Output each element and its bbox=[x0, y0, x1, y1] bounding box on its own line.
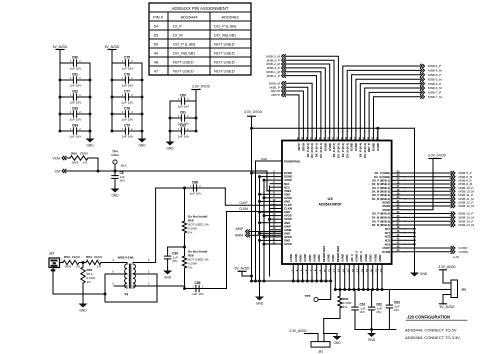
svg-text:RESERVED1: RESERVED1 bbox=[322, 245, 326, 262]
svg-text:.1uF 16V: .1uF 16V bbox=[121, 67, 134, 71]
U3 right pin stubs bbox=[392, 172, 405, 174]
svg-text:3.3V_DVDD: 3.3V_DVDD bbox=[192, 85, 211, 89]
svg-text:DO_M(LSB): DO_M(LSB) bbox=[173, 50, 195, 55]
svg-text:DRYP: DRYP bbox=[297, 143, 301, 151]
svg-text:AINM: AINM bbox=[235, 234, 243, 238]
svg-text:OVRM: OVRM bbox=[459, 250, 469, 254]
svg-text:DX_M (MSB-2): DX_M (MSB-2) bbox=[372, 189, 390, 193]
capacitor C82 bbox=[72, 94, 74, 100]
svg-text:DVDD: DVDD bbox=[354, 143, 358, 151]
svg-text:DRYP: DRYP bbox=[271, 93, 280, 97]
capacitor C86 bbox=[192, 185, 194, 191]
svg-text:0603: 0603 bbox=[72, 161, 79, 165]
svg-text:ADS5444: CONNECT TO 5V: ADS5444: CONNECT TO 5V bbox=[405, 328, 457, 333]
wire rail down right side bbox=[414, 128, 416, 270]
capacitor C34 bbox=[168, 246, 185, 248]
resistor R56 bbox=[82, 263, 84, 268]
jumper J20 bbox=[451, 280, 458, 298]
jumper J21 bbox=[311, 342, 330, 348]
svg-text:C75: C75 bbox=[124, 55, 130, 59]
resistor R59 Do Not Install bbox=[182, 256, 186, 268]
capacitor C34 bbox=[164, 255, 170, 257]
wire to T4 pin 4 bbox=[101, 262, 114, 264]
svg-text:DX_P (MSB-2): DX_P (MSB-2) bbox=[372, 186, 390, 190]
svg-text:ADS5444: ADS5444 bbox=[180, 15, 198, 20]
svg-text:1%: 1% bbox=[83, 161, 88, 165]
wire R60 bottom bbox=[324, 308, 340, 334]
svg-text:GND: GND bbox=[164, 276, 172, 280]
svg-text:.1uF 16V: .1uF 16V bbox=[189, 192, 202, 196]
svg-text:NC8: NC8 bbox=[385, 238, 391, 242]
svg-text:NOT USED: NOT USED bbox=[173, 68, 194, 73]
svg-text:5V_AVDD: 5V_AVDD bbox=[440, 305, 455, 309]
svg-text:1%: 1% bbox=[76, 265, 81, 269]
svg-text:.1uF 16V: .1uF 16V bbox=[69, 84, 82, 88]
resistor R52 ZERO bbox=[63, 260, 79, 264]
right data bus group 2 bbox=[405, 213, 451, 215]
resistor R06 ZERO bbox=[70, 156, 88, 160]
svg-text:DX_P (M-4): DX_P (M-4) bbox=[358, 143, 362, 157]
svg-text:DX_M (M-1): DX_M (M-1) bbox=[319, 143, 323, 158]
svg-text:DRY_P: DRY_P bbox=[367, 143, 371, 152]
capacitor C77 bbox=[124, 94, 126, 100]
bus vertical V1 bbox=[251, 116, 253, 281]
ground bbox=[259, 294, 261, 297]
svg-text:MSB-5_M: MSB-5_M bbox=[428, 77, 442, 81]
wire CM to VREF bbox=[66, 170, 267, 172]
svg-text:3.3V_DVDD: 3.3V_DVDD bbox=[428, 154, 447, 158]
svg-text:AVDD: AVDD bbox=[308, 255, 312, 262]
svg-text:.1uF 16V: .1uF 16V bbox=[69, 135, 82, 139]
gnd near J21 bbox=[330, 333, 337, 335]
svg-text:ju-1B: ju-1B bbox=[452, 256, 459, 259]
svg-text:AGND: AGND bbox=[373, 254, 377, 262]
bus vertical V3 gnd bbox=[259, 177, 261, 295]
svg-text:DX_P (MSB-3): DX_P (MSB-3) bbox=[372, 193, 390, 197]
svg-text:.1uF 16V: .1uF 16V bbox=[121, 118, 134, 122]
svg-text:2: 2 bbox=[187, 114, 189, 118]
bus vertical V5 bbox=[269, 186, 271, 276]
svg-text:DX_P (M-0): DX_P (M-0) bbox=[306, 143, 310, 157]
svg-text:1%: 1% bbox=[87, 280, 92, 284]
wire secondary top to CLKP net bbox=[147, 188, 225, 263]
wire DVDD rail bbox=[252, 127, 415, 129]
svg-text:2: 2 bbox=[79, 76, 81, 80]
svg-text:NOT USED: NOT USED bbox=[214, 41, 235, 46]
svg-text:AVDD: AVDD bbox=[345, 255, 349, 262]
svg-text:DX_M (M-3): DX_M (M-3) bbox=[345, 143, 349, 158]
svg-text:48: 48 bbox=[154, 59, 159, 64]
svg-text:.1uF 16V: .1uF 16V bbox=[177, 105, 190, 109]
bottom avdd bus bbox=[335, 289, 451, 291]
svg-text:2: 2 bbox=[79, 59, 81, 63]
svg-text:3.3V_AVDD: 3.3V_AVDD bbox=[438, 265, 456, 269]
svg-text:16V: 16V bbox=[120, 179, 125, 183]
svg-text:GND: GND bbox=[261, 157, 267, 161]
svg-text:4: 4 bbox=[112, 258, 114, 262]
svg-text:.1uF 16V: .1uF 16V bbox=[121, 135, 134, 139]
capacitor C62 bbox=[180, 128, 182, 134]
svg-text:J20: J20 bbox=[461, 288, 466, 292]
svg-text:AIN_X: AIN_X bbox=[350, 254, 354, 262]
svg-text:C84: C84 bbox=[72, 123, 78, 127]
svg-text:DO_P (LSB): DO_P (LSB) bbox=[214, 23, 237, 28]
svg-text:DGND: DGND bbox=[372, 143, 376, 151]
ground bbox=[371, 331, 373, 334]
U3 top pin stubs bbox=[298, 132, 300, 141]
table ADS54XX PIN ASSIGNMENT bbox=[149, 3, 251, 75]
svg-text:MSB-1_P: MSB-1_P bbox=[267, 74, 280, 78]
bottom gnd bus bbox=[252, 280, 331, 282]
svg-text:VCM: VCM bbox=[52, 156, 60, 160]
capacitor C61 bbox=[180, 115, 182, 121]
svg-text:CM: CM bbox=[55, 169, 60, 173]
svg-text:DX_P (M-1): DX_P (M-1) bbox=[315, 143, 319, 157]
svg-text:T4: T4 bbox=[124, 293, 128, 297]
wire top pin to rail bbox=[377, 128, 379, 140]
capacitor C8 bbox=[112, 175, 118, 177]
svg-text:5V_AVDD: 5V_AVDD bbox=[235, 266, 250, 270]
svg-text:MSB-7_P: MSB-7_P bbox=[428, 91, 441, 95]
ground bbox=[167, 268, 169, 271]
svg-text:2: 2 bbox=[131, 76, 133, 80]
svg-text:AGND: AGND bbox=[327, 254, 331, 262]
svg-text:PIN #: PIN # bbox=[153, 15, 164, 20]
svg-text:.1uF 16V: .1uF 16V bbox=[191, 292, 204, 296]
svg-text:DX_P (M-3): DX_P (M-3) bbox=[341, 143, 345, 157]
svg-text:AGND: AGND bbox=[294, 254, 298, 262]
wire bbox=[88, 158, 98, 171]
svg-text:2: 2 bbox=[131, 93, 133, 97]
svg-text:DGND: DGND bbox=[350, 143, 354, 151]
svg-text:CLKM: CLKM bbox=[239, 207, 248, 211]
svg-text:GND: GND bbox=[138, 144, 146, 148]
svg-text:ZERO: ZERO bbox=[72, 255, 81, 259]
capacitor C85 bbox=[195, 285, 197, 291]
svg-text:U3: U3 bbox=[327, 196, 333, 201]
svg-text:GND: GND bbox=[333, 341, 341, 345]
svg-text:POWERPAD: POWERPAD bbox=[284, 159, 300, 163]
svg-text:NC7: NC7 bbox=[385, 231, 391, 235]
svg-text:GND: GND bbox=[368, 338, 376, 342]
resistor R60 bbox=[339, 290, 341, 297]
svg-text:NOT USED: NOT USED bbox=[214, 68, 235, 73]
op-amp U3 body bbox=[282, 141, 392, 265]
svg-text:16V: 16V bbox=[172, 259, 177, 263]
svg-text:AGND: AGND bbox=[341, 254, 345, 262]
right data bus group 1 bbox=[405, 172, 451, 174]
svg-text:C60: C60 bbox=[180, 93, 186, 97]
svg-text:DVDD: DVDD bbox=[382, 204, 390, 208]
svg-text:RESERVED2: RESERVED2 bbox=[336, 245, 340, 262]
svg-text:AGND: AGND bbox=[289, 254, 293, 262]
svg-text:NC8: NC8 bbox=[385, 235, 391, 239]
svg-text:VREF: VREF bbox=[111, 153, 119, 157]
resistor R58 Do Not Install bbox=[182, 221, 186, 233]
svg-text:2: 2 bbox=[79, 127, 81, 131]
svg-text:MSB-4_M: MSB-4_M bbox=[428, 69, 442, 73]
NC stubs to gnd rail bbox=[405, 228, 415, 230]
svg-text:NOT USED: NOT USED bbox=[214, 59, 235, 64]
svg-text:DX_M (M-2): DX_M (M-2) bbox=[337, 143, 341, 158]
svg-text:GND: GND bbox=[86, 144, 94, 148]
capacitor C83 bbox=[72, 111, 74, 117]
svg-text:ADS5463: CONNECT TO 3.3V: ADS5463: CONNECT TO 3.3V bbox=[405, 335, 460, 340]
capacitor C81 bbox=[72, 77, 74, 83]
svg-text:DX_M (MSB-5): DX_M (MSB-5) bbox=[372, 223, 390, 227]
svg-text:.1uF 16V: .1uF 16V bbox=[69, 118, 82, 122]
svg-text:.1uF 16V: .1uF 16V bbox=[69, 67, 82, 71]
svg-text:DO_P (LSB): DO_P (LSB) bbox=[173, 41, 196, 46]
svg-text:OVRM: OVRM bbox=[382, 250, 391, 254]
svg-text:1%: 1% bbox=[188, 266, 193, 270]
wire bbox=[79, 262, 86, 264]
svg-text:49: 49 bbox=[154, 50, 159, 55]
svg-text:1%: 1% bbox=[97, 265, 102, 269]
svg-text:AGND: AGND bbox=[313, 254, 317, 262]
svg-text:C78: C78 bbox=[124, 106, 130, 110]
svg-text:DX_M (M-0): DX_M (M-0) bbox=[310, 143, 314, 158]
wire rail AIN left bbox=[184, 188, 186, 221]
svg-text:AGND_X: AGND_X bbox=[355, 251, 359, 262]
svg-text:J21: J21 bbox=[318, 350, 323, 354]
ground bbox=[82, 301, 84, 304]
svg-text:50: 50 bbox=[154, 41, 159, 46]
svg-text:0603: 0603 bbox=[65, 265, 72, 269]
svg-text:2: 2 bbox=[131, 127, 133, 131]
OVRP OVRM wires bbox=[405, 247, 451, 249]
svg-text:NC9: NC9 bbox=[385, 242, 391, 246]
svg-text:.1uF 16V: .1uF 16V bbox=[177, 135, 190, 139]
ground bbox=[336, 334, 338, 337]
capacitor C62 bbox=[371, 290, 373, 308]
capacitor C63 bbox=[388, 290, 390, 306]
svg-text:DX_M (MSB-3): DX_M (MSB-3) bbox=[372, 197, 390, 201]
svg-text:DX_P (M-2): DX_P (M-2) bbox=[332, 143, 336, 157]
svg-text:.1uF 16V: .1uF 16V bbox=[69, 101, 82, 105]
svg-text:16V: 16V bbox=[394, 308, 399, 312]
wire R56 to gnd bbox=[82, 283, 84, 301]
capacitor C80 bbox=[72, 60, 74, 66]
svg-text:DGND: DGND bbox=[323, 143, 327, 151]
svg-text:DX_M (M-4): DX_M (M-4) bbox=[363, 143, 367, 158]
svg-text:DVDD: DVDD bbox=[382, 208, 390, 212]
capacitor C84 bbox=[72, 128, 74, 134]
svg-text:CLKP: CLKP bbox=[239, 201, 247, 205]
svg-text:DI_P: DI_P bbox=[173, 23, 182, 28]
svg-text:ZERO: ZERO bbox=[94, 255, 103, 259]
svg-text:C85: C85 bbox=[194, 281, 200, 285]
wire CLKP bbox=[225, 188, 282, 205]
svg-text:C79: C79 bbox=[124, 123, 130, 127]
svg-text:2: 2 bbox=[131, 59, 133, 63]
svg-text:16V: 16V bbox=[360, 310, 365, 314]
svg-text:C76: C76 bbox=[124, 72, 130, 76]
svg-text:R54: R54 bbox=[86, 255, 92, 259]
ground bbox=[169, 139, 171, 142]
svg-text:OVRP: OVRP bbox=[382, 246, 390, 250]
svg-text:ADS54XX PIN ASSIGNMENT: ADS54XX PIN ASSIGNMENT bbox=[171, 6, 228, 11]
svg-text:BLK: BLK bbox=[121, 164, 127, 168]
svg-text:WBC4-1WL: WBC4-1WL bbox=[118, 256, 135, 260]
capacitor C61 bbox=[354, 290, 356, 308]
svg-text:C77: C77 bbox=[124, 89, 130, 93]
capacitor C63 bbox=[386, 304, 392, 306]
svg-text:MSB-6_M: MSB-6_M bbox=[428, 86, 442, 90]
svg-text:C80: C80 bbox=[72, 55, 78, 59]
svg-text:3: 3 bbox=[148, 258, 150, 262]
svg-text:DVDD: DVDD bbox=[376, 143, 380, 151]
svg-text:C62: C62 bbox=[180, 123, 186, 127]
svg-text:MSB-14_M: MSB-14_M bbox=[459, 223, 475, 227]
svg-text:AVDD: AVDD bbox=[331, 255, 335, 262]
svg-text:DX_M (MSB): DX_M (MSB) bbox=[374, 175, 390, 179]
svg-text:1%: 1% bbox=[188, 231, 193, 235]
ground bbox=[114, 186, 116, 189]
bottom cap gnd bus bbox=[355, 329, 396, 331]
svg-text:.1uF 16V: .1uF 16V bbox=[121, 84, 134, 88]
svg-text:GND: GND bbox=[166, 147, 174, 151]
capacitor C61 bbox=[352, 306, 358, 308]
capacitor C79 bbox=[124, 128, 126, 134]
wire J47 shield loop bbox=[53, 268, 105, 295]
svg-text:DX_P (MSB-1): DX_P (MSB-1) bbox=[372, 178, 390, 182]
svg-text:53: 53 bbox=[154, 32, 159, 37]
svg-text:MSB-5_P: MSB-5_P bbox=[428, 73, 441, 77]
wire VREF from CM bbox=[267, 171, 270, 191]
capacitor C76 bbox=[124, 77, 126, 83]
svg-text:5: 5 bbox=[112, 282, 114, 286]
svg-text:AVDD: AVDD bbox=[317, 255, 321, 262]
svg-text:2: 2 bbox=[148, 270, 150, 274]
svg-text:2: 2 bbox=[187, 127, 189, 131]
svg-text:5V_AVDD: 5V_AVDD bbox=[105, 45, 120, 49]
svg-text:GND: GND bbox=[79, 309, 87, 313]
svg-text:47: 47 bbox=[154, 68, 159, 73]
svg-text:MSB-6_P: MSB-6_P bbox=[428, 82, 441, 86]
svg-text:6: 6 bbox=[112, 270, 114, 274]
svg-text:DVDD: DVDD bbox=[328, 143, 332, 151]
svg-text:16V: 16V bbox=[376, 310, 381, 314]
svg-text:AVDD_X: AVDD_X bbox=[359, 251, 363, 262]
svg-text:DX_P (MSB-5): DX_P (MSB-5) bbox=[372, 219, 390, 223]
svg-text:DX_M (MSB-4): DX_M (MSB-4) bbox=[372, 216, 390, 220]
capacitor C8 bbox=[114, 171, 116, 176]
svg-text:3.3V_AVDD: 3.3V_AVDD bbox=[289, 329, 307, 333]
ground bbox=[89, 136, 91, 139]
svg-text:DX_M (MSB-1): DX_M (MSB-1) bbox=[372, 182, 390, 186]
svg-text:AVDD: AVDD bbox=[378, 255, 382, 262]
capacitor C62 bbox=[368, 306, 374, 308]
svg-text:C83: C83 bbox=[72, 106, 78, 110]
svg-text:ADS54XXIPZP: ADS54XXIPZP bbox=[319, 203, 343, 207]
svg-text:AGND: AGND bbox=[364, 254, 368, 262]
capacitor C60 bbox=[180, 98, 182, 104]
svg-text:DX_P (MSB): DX_P (MSB) bbox=[375, 171, 391, 175]
svg-text:C86: C86 bbox=[192, 180, 198, 184]
svg-text:DO_M(LSB): DO_M(LSB) bbox=[214, 32, 236, 37]
svg-text:TP5: TP5 bbox=[305, 294, 311, 298]
svg-text:GND: GND bbox=[111, 194, 119, 198]
svg-text:2: 2 bbox=[187, 97, 189, 101]
svg-text:MSB-7_M: MSB-7_M bbox=[428, 95, 442, 99]
bus vertical V4 bbox=[263, 180, 265, 281]
svg-text:AINP: AINP bbox=[236, 227, 243, 231]
svg-text:1: 1 bbox=[148, 282, 150, 286]
capacitor C78 bbox=[124, 111, 126, 117]
svg-text:NOT USED: NOT USED bbox=[214, 50, 235, 55]
svg-text:NOT USED: NOT USED bbox=[173, 59, 194, 64]
wire CLKM bbox=[157, 285, 185, 287]
svg-text:MSB-4_P: MSB-4_P bbox=[428, 64, 441, 68]
svg-text:DI_M: DI_M bbox=[173, 32, 183, 37]
svg-text:2: 2 bbox=[79, 110, 81, 114]
svg-text:.1uF 16V: .1uF 16V bbox=[121, 101, 134, 105]
wire center tap loop bbox=[105, 274, 157, 302]
svg-text:1%: 1% bbox=[343, 305, 348, 309]
capacitor C75 bbox=[124, 60, 126, 66]
svg-text:DX_P (MSB-4): DX_P (MSB-4) bbox=[372, 212, 390, 216]
ground bbox=[414, 270, 416, 273]
bus fan right group bbox=[421, 64, 423, 68]
svg-text:NC7: NC7 bbox=[385, 227, 391, 231]
svg-text:C82: C82 bbox=[72, 89, 78, 93]
svg-text:AVDD: AVDD bbox=[299, 255, 303, 262]
svg-text:J20 CONFIGURATION: J20 CONFIGURATION bbox=[407, 315, 450, 320]
ground bbox=[141, 136, 143, 139]
svg-text:AVDD: AVDD bbox=[284, 242, 292, 246]
svg-text:2: 2 bbox=[131, 110, 133, 114]
svg-text:MSB-12_M: MSB-12_M bbox=[459, 204, 475, 208]
svg-text:DRYM: DRYM bbox=[302, 142, 306, 151]
svg-text:R06: R06 bbox=[71, 152, 77, 156]
svg-text:3.3V_DVDD: 3.3V_DVDD bbox=[244, 110, 263, 114]
svg-text:AVDD: AVDD bbox=[369, 255, 373, 262]
svg-text:5V_AVDD: 5V_AVDD bbox=[53, 45, 68, 49]
resistor R54 ZERO bbox=[86, 260, 101, 264]
svg-text:C81: C81 bbox=[72, 72, 78, 76]
wire secondary bottom CLKM net bbox=[147, 285, 157, 287]
svg-text:2: 2 bbox=[79, 93, 81, 97]
svg-text:ADS5463: ADS5463 bbox=[221, 15, 239, 20]
svg-text:2: 2 bbox=[199, 184, 201, 188]
svg-text:AGND: AGND bbox=[303, 254, 307, 262]
svg-text:2: 2 bbox=[202, 284, 204, 288]
svg-text:J47: J47 bbox=[49, 252, 54, 256]
svg-text:R52: R52 bbox=[64, 255, 70, 259]
svg-text:GND: GND bbox=[420, 272, 428, 276]
bus vertical V2 bbox=[255, 161, 257, 281]
svg-text:GND: GND bbox=[256, 302, 264, 306]
svg-text:ZERO: ZERO bbox=[80, 152, 89, 156]
svg-text:C61: C61 bbox=[180, 110, 186, 114]
svg-text:DGND: DGND bbox=[382, 201, 390, 205]
svg-text:54: 54 bbox=[154, 23, 159, 28]
